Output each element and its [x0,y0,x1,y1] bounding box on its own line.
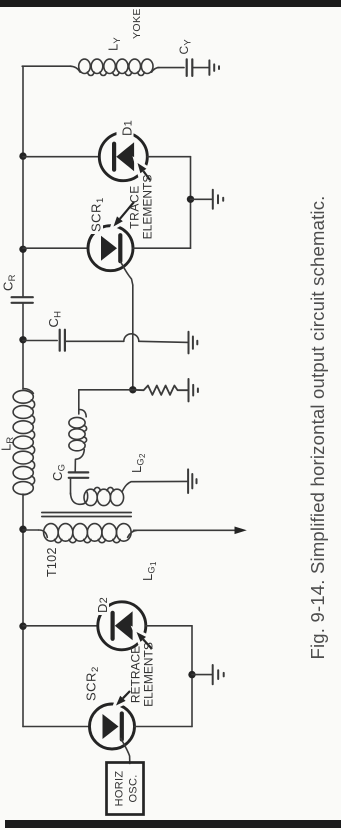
wire main rail right of CR [22,66,24,297]
svg-text:YOKE: YOKE [131,8,143,39]
wire rail to D2 [23,625,98,627]
label TRACE ELEMENTS [128,175,155,240]
label YOKE [131,8,143,39]
arrow output to horiz circuits [235,527,247,535]
label LR [0,437,16,452]
winding LG2 exit to ground [122,481,187,491]
label T102 [45,547,59,577]
wire junction to ground [191,198,213,200]
svg-text:ELEMENTS: ELEMENTS [141,175,155,240]
capacitor CY [187,59,193,76]
wire rail corner to SCR2 [23,726,90,728]
svg-text:OSC.: OSC. [128,774,140,802]
winding LG1 [39,524,138,543]
transformer core T102 [42,513,131,517]
node dot gate junction [129,386,136,393]
wire LG1 output run [134,529,236,531]
node dot retrace ground junction [188,671,195,678]
wire LY to CY [158,67,185,69]
label D2 (with circle gap) [94,597,110,615]
ground CH [189,332,198,354]
wire CH down [65,340,124,342]
node dot trace ground junction [187,196,194,203]
inductor LR [13,389,35,495]
wire SCR2 to connector [135,726,193,728]
label CY [177,39,194,55]
node dot rail-D2 [19,623,26,630]
winding LG2 entry [71,491,88,505]
wire SCR1 gate run [132,285,134,390]
label D1 (with circle gap) [117,120,135,138]
inductor LY (yoke winding) [70,59,159,75]
diode D2 [98,602,146,650]
label CH [46,311,64,328]
wire rail to D1 [23,156,100,158]
winding LG2 rings [84,487,124,505]
node dot rail-SCR1 [19,246,26,253]
SCR2 gate lead [121,739,130,764]
annotation arrow to D1 [138,163,151,180]
annotation arrow to SCR1 [114,202,135,227]
wire junction to choke [78,390,80,414]
wire CY to ground [192,67,209,69]
wire D2 to corner [146,625,192,627]
SCR1 gate lead [121,262,133,286]
svg-text:TRACE: TRACE [128,185,142,229]
label RETRACE ELEMENTS [129,642,156,707]
annotation arrow to SCR2 [116,691,130,706]
svg-text:HORIZ: HORIZ [114,771,126,807]
node dot rail-LG1 [19,526,26,533]
wire SCR1 to connector [133,247,191,249]
capacitor CR [12,297,33,303]
annotation arrow to D2 [137,632,153,649]
label CR [1,274,19,291]
block HORIZ OSC [107,763,144,815]
ground LG2 [188,469,196,493]
label SCR1 (with circle gap) [87,196,106,234]
wire D1 to corner [147,156,190,158]
inductor gate choke [69,409,87,472]
ground retrace pair [213,665,224,684]
diode D1 [99,133,147,181]
wire gate junction up [79,389,133,391]
label CG [50,464,68,481]
label LG1 [140,561,158,581]
svg-text:RETRACE: RETRACE [129,646,143,703]
resistor gate bias [133,386,189,395]
SCR1 [88,226,133,271]
caption Fig. 9-14 [307,195,328,659]
node dot rail-CH [19,336,26,343]
wire hop to ground [139,341,189,342]
wire main rail LR to SCR2 corner [22,494,24,727]
label LY [106,37,124,51]
ground yoke [209,60,219,75]
wire CG to LG2 winding [70,478,72,494]
wire rail to CH [23,340,57,342]
wire junction to retrace ground [192,674,213,676]
capacitor CG [69,472,89,477]
wire hop over gate lead [124,334,139,342]
svg-text:D2: D2 [95,597,110,613]
svg-text:Fig. 9-14. Simplified horizont: Fig. 9-14. Simplified horizontal output … [307,195,328,659]
page top rule bar [0,0,341,7]
ground trace pair [213,190,223,209]
wire main rail CR to LR [22,303,24,389]
svg-text:T102: T102 [45,547,59,577]
wire rail to LG1 [23,529,39,531]
svg-text:ELEMENTS: ELEMENTS [142,642,156,707]
capacitor CH [60,330,65,351]
ground gate resistor [189,379,198,401]
wire D1-SCR1 connector [190,157,192,249]
page bottom rule bar [5,820,341,828]
SCR2 [90,704,135,749]
wire D2-SCR2 connector [191,626,193,727]
label SCR2 (with circle gap) [82,665,101,703]
label LG2 [129,453,147,473]
svg-text:D1: D1 [120,120,135,136]
wire rail to SCR1 [23,247,89,249]
node dot rail-D1 [19,152,26,159]
wire yoke branch from rail [22,65,71,67]
